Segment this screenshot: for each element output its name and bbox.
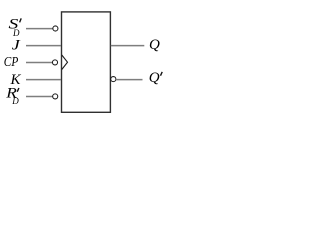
svg-text:Q: Q: [149, 37, 160, 53]
wire J input: [26, 45, 61, 47]
bubble CP active-low: [52, 60, 57, 65]
wire R'D input: [26, 96, 53, 98]
wire Q output: [111, 45, 145, 47]
bubble R'D active-low: [53, 94, 58, 99]
svg-text:D: D: [11, 96, 19, 106]
wire S'D input: [26, 28, 53, 30]
wire CP input: [26, 62, 53, 64]
wire K input: [26, 79, 61, 81]
clock chevron: [62, 55, 68, 70]
bubble S'D active-low: [53, 26, 58, 31]
svg-text:Q: Q: [149, 70, 160, 86]
flip-flop body U1: [62, 12, 111, 112]
wire Q' output: [116, 79, 143, 81]
bubble Q' active-low: [111, 77, 116, 82]
svg-text:J: J: [12, 36, 21, 53]
svg-text:CP: CP: [4, 54, 19, 69]
